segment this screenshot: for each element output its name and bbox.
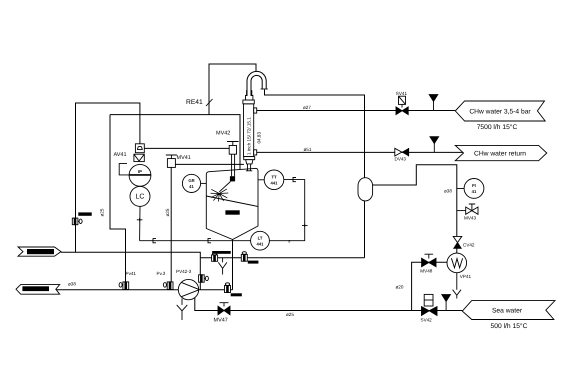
MV42 spray nozzle tip (230, 176, 235, 181)
vessel crystallizer tank (206, 168, 258, 239)
sample valve on feed drop (199, 275, 209, 282)
valve MV47 (214, 303, 231, 324)
svg-text:ø20: ø20 (396, 285, 404, 290)
svg-text:CHw water return: CHw water return (474, 151, 526, 158)
svg-text:1 inch 15/.72/.15.1: 1 inch 15/.72/.15.1 (247, 117, 252, 155)
svg-text:500 l/h 15°C: 500 l/h 15°C (491, 323, 528, 330)
tank volume label block (225, 210, 239, 214)
svg-text:IP: IP (138, 169, 142, 174)
wire drain header y258 (200, 257, 364, 259)
svg-text:ø51: ø51 (304, 147, 312, 152)
svg-text:RE41: RE41 (186, 99, 203, 106)
banner CHW water return (455, 145, 547, 160)
svg-text:AV41: AV41 (114, 152, 127, 158)
instrument FI41 (464, 179, 484, 199)
wire drain funnel under header (218, 258, 227, 275)
tank spray pipe from nozzle (219, 182, 230, 192)
pump P41 circle (178, 279, 198, 299)
svg-text:Pv.3: Pv.3 (157, 271, 166, 276)
signal tick on TT drop (302, 224, 308, 227)
wire feed line from flag1 (61, 252, 200, 289)
svg-text:TT: TT (271, 175, 277, 180)
wire top loop to condenser (209, 64, 256, 115)
condenser upper nozzle (254, 108, 257, 113)
drain valve on discharge (225, 283, 231, 293)
label block header left valve (212, 251, 231, 254)
valve SV42 (421, 294, 438, 322)
flag stream out left bottom (16, 285, 60, 295)
valve SV41 (396, 91, 408, 114)
vent to atmosphere on seawater (442, 295, 451, 302)
valve MV41 (166, 155, 191, 168)
svg-text:LT: LT (258, 236, 263, 241)
signal tick on LC drop (137, 218, 143, 221)
svg-text:41: 41 (189, 184, 194, 189)
svg-text:ø38: ø38 (68, 282, 76, 287)
svg-text:PV42-3: PV42-3 (176, 269, 192, 274)
svg-text:41: 41 (472, 189, 477, 194)
svg-text:VP41: VP41 (460, 274, 472, 279)
svg-text:CHw water 3,5-4 bar: CHw water 3,5-4 bar (469, 109, 531, 116)
valve AV41 actuator envelope (134, 154, 144, 161)
pump VP41 (447, 253, 471, 279)
wire condenser upper nozzle line to CHW supply banner (257, 110, 455, 112)
wire gooseneck outlet to capsule (265, 90, 365, 178)
instrument IP converter (129, 164, 151, 186)
svg-text:441: 441 (271, 180, 279, 185)
wire pump discharge to tank riser (199, 289, 233, 291)
wire seawater line (195, 297, 463, 311)
signal hop E at x294 (293, 178, 296, 182)
wire MV41 to condenser base (175, 163, 244, 165)
flag stream in left top (18, 247, 61, 256)
drain valve on header right (241, 252, 247, 261)
svg-text:Pv41: Pv41 (126, 271, 137, 276)
svg-text:MV41: MV41 (177, 155, 191, 161)
wire AV41 supply riser (76, 103, 140, 252)
wire tank bottom riser (232, 240, 234, 290)
wire VP41 drain funnel (453, 273, 461, 299)
banner sea water (462, 301, 555, 320)
MV42 dip tube (232, 154, 235, 176)
instrument GR41 (182, 174, 206, 192)
valve MV43 (464, 204, 478, 220)
capsule knock-out pot (358, 178, 373, 201)
svg-text:7500 l/h 15°C: 7500 l/h 15°C (477, 124, 518, 131)
wire pump drain to funnel (177, 299, 188, 321)
valve MV42 (216, 131, 239, 155)
svg-text:MV42: MV42 (216, 131, 230, 137)
wire capsule outlet to right column (373, 165, 457, 237)
svg-text:DV43: DV43 (395, 157, 407, 162)
tank liquid level line (206, 196, 258, 207)
svg-text:ø25: ø25 (165, 208, 170, 216)
wire MV43 stub (457, 210, 466, 212)
sample valve PV41 on suction (119, 282, 129, 290)
svg-text:ø25: ø25 (100, 208, 105, 216)
label block header right valve (248, 261, 259, 264)
svg-text:SV42: SV42 (421, 317, 433, 322)
svg-text:MV48: MV48 (420, 268, 432, 273)
signal hop E at x154 (153, 239, 156, 243)
svg-text:04.83: 04.83 (256, 132, 261, 144)
condenser lower nozzle (254, 150, 257, 155)
valve MV48 (420, 254, 436, 273)
svg-text:ø27: ø27 (303, 105, 311, 110)
condenser D4.83 column (243, 91, 255, 171)
wire seawater riser to MV48 (412, 262, 448, 310)
wire LC signal drop (139, 206, 141, 240)
sample valve on AV41 riser (72, 218, 82, 225)
banner CHW water supply (455, 101, 545, 121)
vent to atmosphere on CHW supply (429, 95, 438, 102)
svg-text:SV41: SV41 (396, 91, 408, 96)
wire level signal line y241 (140, 180, 305, 241)
svg-text:CV42: CV42 (463, 242, 475, 247)
svg-text:MV47: MV47 (214, 318, 228, 324)
node spray return circle in tank (237, 173, 244, 180)
svg-text:441: 441 (257, 241, 265, 246)
valve CV42 check pair (453, 236, 475, 248)
svg-text:ø25: ø25 (286, 312, 294, 317)
wire RE41 line to tank dip pipe (110, 115, 240, 173)
instrument LT (251, 231, 270, 250)
wire AV41 to MV42 (144, 147, 229, 149)
wire condenser lower nozzle line to CHW return banner (257, 151, 464, 153)
wire suction line from flag2 to pump (57, 289, 179, 291)
sample valve PV42 on suction (163, 282, 173, 290)
svg-text:LC: LC (136, 194, 145, 201)
wire MV41 drop leg (170, 167, 172, 282)
wire FI stub (457, 188, 465, 190)
svg-text:MV43: MV43 (464, 215, 476, 220)
valve AV41 positioner box (135, 144, 144, 153)
svg-text:Sea water: Sea water (492, 308, 523, 315)
tank spray starburst (211, 189, 229, 202)
wire VP41 top to CV42 (456, 248, 458, 253)
signal hop E at x209 (208, 239, 211, 243)
IP supply bracket (119, 164, 129, 175)
gooseneck vent pipe (249, 73, 264, 95)
instrument TT (258, 170, 284, 190)
pump P41 internals (181, 282, 199, 297)
label block discharge valve (231, 293, 242, 296)
svg-text:FI: FI (472, 183, 476, 188)
svg-text:ø38: ø38 (444, 189, 452, 194)
vent to atmosphere on CHW return (430, 137, 439, 144)
wire RE41 down leg with jog (110, 115, 126, 282)
wire capsule bottom drop (364, 201, 366, 258)
svg-text:GR: GR (188, 178, 194, 183)
pipe break slash on RE41 riser (206, 99, 213, 106)
drain valve on header left (212, 252, 218, 261)
label block on AV41 riser valve (78, 212, 91, 215)
valve DV43 check (395, 148, 409, 162)
instrument LC (130, 186, 150, 206)
